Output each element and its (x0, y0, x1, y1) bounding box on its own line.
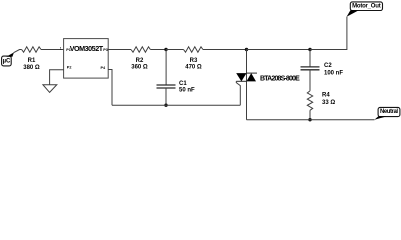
capacitor C1 (157, 81, 196, 94)
svg-text:VOM3052T: VOM3052T (70, 44, 104, 53)
svg-text:R1: R1 (28, 58, 36, 64)
svg-text:R3: R3 (190, 58, 198, 64)
svg-text:470 Ω: 470 Ω (185, 64, 202, 70)
wire C1 to gate rail (165, 88, 167, 105)
wire node A to R3 (166, 49, 184, 51)
wire node A down to C1 (165, 50, 167, 86)
svg-text:Motor_Out: Motor_Out (352, 3, 381, 9)
svg-text:33 Ω: 33 Ω (322, 100, 335, 106)
node B junction (245, 48, 248, 51)
wire node B to node C (247, 49, 311, 51)
wire gate riser (236, 81, 240, 105)
wire gate rail (112, 104, 240, 106)
svg-text:BTA208S-800E: BTA208S-800E (260, 75, 300, 82)
svg-text:C2: C2 (324, 63, 332, 69)
wire U1 P2 to ground (50, 70, 64, 85)
svg-text:P3: P3 (103, 48, 108, 52)
svg-text:R4: R4 (322, 92, 330, 98)
svg-text:100 nF: 100 nF (324, 71, 343, 77)
svg-text:R2: R2 (136, 58, 144, 64)
svg-text:C1: C1 (179, 81, 187, 87)
svg-text:380 Ω: 380 Ω (23, 65, 40, 71)
wire R2 to node A (150, 49, 166, 51)
node A junction (164, 48, 167, 51)
flag uC (2, 52, 14, 66)
flag Motor_Out (347, 2, 383, 17)
optocoupler U1 VOM3052T (64, 39, 109, 79)
wire neutral rail (247, 119, 375, 121)
svg-text:Neutral: Neutral (380, 109, 398, 115)
wire uC to R1 (14, 50, 22, 53)
triac Q1 (236, 50, 300, 120)
junction R4 bottom (308, 118, 311, 121)
wire node C to Motor_Out (310, 17, 347, 50)
wire C2 to R4 (309, 70, 311, 91)
ground (43, 85, 57, 93)
junction C1 bottom (164, 104, 167, 107)
resistor R3 (184, 47, 203, 71)
wire U1 P4 down (108, 70, 112, 106)
svg-text:P2: P2 (67, 66, 72, 70)
flag Neutral (374, 107, 400, 119)
resistor R2 (131, 47, 150, 71)
resistor R1 (22, 47, 41, 71)
wire R1 to U1 pin1 (41, 49, 64, 51)
resistor R4 (307, 91, 335, 110)
capacitor C2 (301, 63, 344, 77)
node C junction (308, 48, 311, 51)
wire U1 P3 to R2 (108, 49, 131, 51)
svg-text:µC: µC (3, 58, 11, 64)
wire R4 to neutral rail (309, 110, 311, 119)
wire node C down to C2 (309, 50, 311, 67)
svg-text:360 Ω: 360 Ω (131, 64, 148, 70)
wire R3 to node B (203, 49, 247, 51)
svg-text:50 nF: 50 nF (179, 88, 195, 94)
